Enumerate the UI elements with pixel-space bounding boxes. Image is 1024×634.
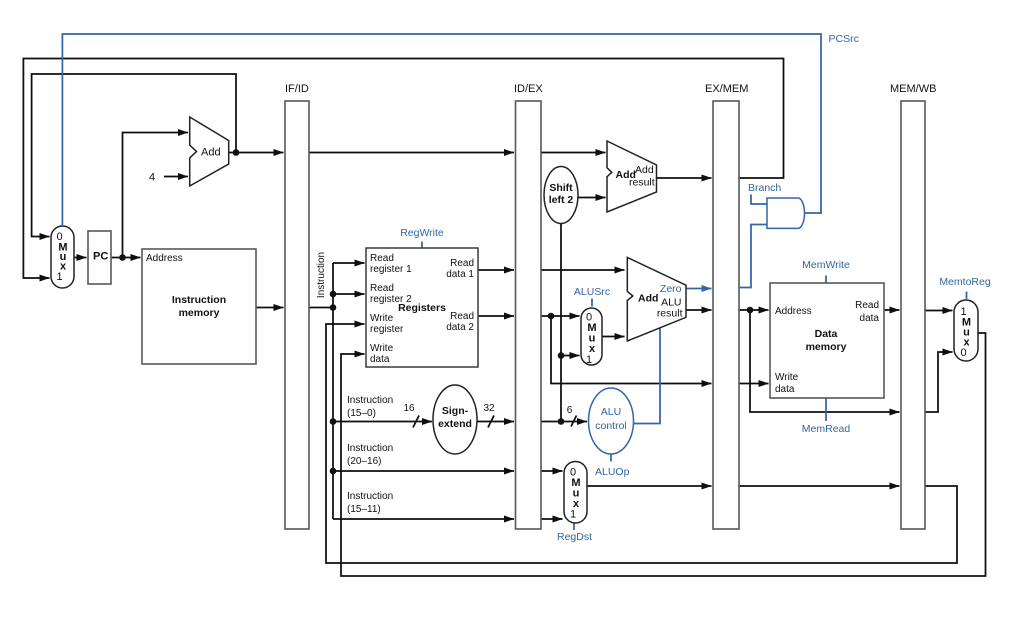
svg-text:Write: Write — [370, 343, 394, 354]
svg-text:extend: extend — [438, 418, 472, 430]
svg-text:Write: Write — [775, 372, 799, 383]
svg-text:32: 32 — [483, 403, 495, 414]
svg-text:MemtoReg: MemtoReg — [939, 276, 991, 288]
svg-text:memory: memory — [806, 341, 847, 353]
svg-text:1: 1 — [570, 509, 576, 521]
svg-text:data 2: data 2 — [446, 322, 474, 333]
svg-text:Read: Read — [855, 300, 879, 311]
svg-text:Data: Data — [815, 328, 838, 340]
svg-text:Read: Read — [370, 253, 394, 264]
svg-text:PC: PC — [93, 251, 108, 263]
svg-text:IF/ID: IF/ID — [285, 83, 309, 95]
svg-text:(15–11): (15–11) — [347, 504, 381, 515]
svg-text:Registers: Registers — [398, 302, 446, 314]
svg-text:Branch: Branch — [748, 182, 781, 194]
svg-text:Instruction: Instruction — [172, 294, 226, 306]
svg-text:Address: Address — [146, 253, 183, 264]
svg-text:control: control — [595, 420, 627, 432]
svg-text:register 1: register 1 — [370, 264, 412, 275]
svg-text:RegDst: RegDst — [557, 531, 592, 543]
svg-text:register: register — [370, 324, 404, 335]
svg-text:4: 4 — [149, 172, 155, 184]
svg-text:Add: Add — [635, 164, 654, 176]
svg-text:(20–16): (20–16) — [347, 456, 381, 467]
svg-text:Write: Write — [370, 313, 394, 324]
svg-text:ALU: ALU — [601, 406, 621, 418]
svg-text:Add: Add — [201, 147, 221, 159]
svg-text:Read: Read — [450, 311, 474, 322]
svg-text:MEM/WB: MEM/WB — [890, 83, 936, 95]
svg-text:Address: Address — [775, 306, 812, 317]
svg-text:data: data — [775, 384, 795, 395]
svg-text:result: result — [629, 177, 655, 189]
svg-text:Instruction: Instruction — [316, 252, 327, 298]
svg-text:data 1: data 1 — [446, 269, 474, 280]
svg-text:1: 1 — [586, 354, 592, 366]
svg-text:Zero: Zero — [660, 283, 682, 295]
svg-text:Add: Add — [638, 293, 658, 305]
svg-text:6: 6 — [567, 405, 573, 416]
svg-text:Read: Read — [450, 258, 474, 269]
svg-text:ALUOp: ALUOp — [595, 466, 630, 478]
svg-text:Instruction: Instruction — [347, 443, 393, 454]
svg-text:0: 0 — [960, 347, 966, 359]
svg-text:data: data — [860, 313, 880, 324]
svg-text:(15–0): (15–0) — [347, 408, 376, 419]
svg-text:result: result — [657, 308, 683, 320]
svg-text:MemWrite: MemWrite — [802, 259, 850, 271]
svg-text:memory: memory — [179, 307, 220, 319]
svg-text:data: data — [370, 354, 390, 365]
svg-text:RegWrite: RegWrite — [400, 227, 444, 239]
svg-text:MemRead: MemRead — [802, 423, 851, 435]
svg-text:1: 1 — [56, 271, 62, 283]
svg-text:Instruction: Instruction — [347, 395, 393, 406]
svg-text:PCSrc: PCSrc — [829, 33, 859, 45]
svg-text:left 2: left 2 — [549, 194, 574, 206]
svg-text:Shift: Shift — [549, 182, 573, 194]
svg-text:16: 16 — [403, 403, 415, 414]
svg-text:Sign-: Sign- — [442, 405, 469, 417]
svg-text:Instruction: Instruction — [347, 491, 393, 502]
svg-text:Read: Read — [370, 283, 394, 294]
svg-text:ID/EX: ID/EX — [514, 83, 543, 95]
svg-text:EX/MEM: EX/MEM — [705, 83, 748, 95]
svg-text:ALUSrc: ALUSrc — [574, 286, 610, 298]
